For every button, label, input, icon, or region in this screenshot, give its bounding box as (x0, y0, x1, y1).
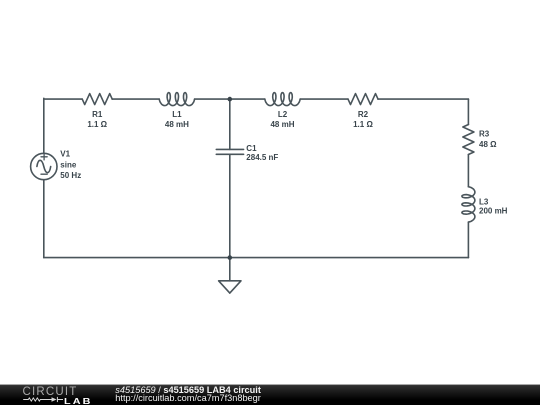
wire: R2 to top-right corner (378, 98, 468, 100)
label C1 "284.5 nF" (246, 144, 278, 162)
svg-text:R1: R1 (92, 110, 103, 119)
wire: R1 to L1 (112, 98, 159, 100)
logo wordmark LAB (64, 397, 93, 405)
node B junction dot (ground node) (228, 255, 233, 260)
svg-text:1.1 Ω: 1.1 Ω (353, 120, 373, 129)
inductor L3 (462, 187, 475, 222)
wire: bottom rail (44, 257, 469, 259)
wire: V1 bottom lead (left rail lower) (43, 180, 45, 258)
svg-text:284.5 nF: 284.5 nF (246, 153, 278, 162)
svg-text:sine: sine (60, 160, 77, 169)
svg-text:48 Ω: 48 Ω (479, 140, 497, 149)
svg-text:C1: C1 (246, 144, 257, 153)
logo wordmark CIRCUIT (23, 386, 78, 398)
wire: V1 top lead (left rail upper) (43, 98, 45, 153)
wire: right rail, corner to R3 (467, 99, 469, 124)
svg-text:48 mH: 48 mH (165, 120, 189, 129)
svg-text:L2: L2 (278, 110, 288, 119)
wire: C1 top lead (229, 99, 231, 149)
svg-text:50 Hz: 50 Hz (60, 171, 81, 180)
svg-text:V1: V1 (60, 150, 70, 159)
inductor L2 (265, 93, 300, 106)
svg-text:1.1 Ω: 1.1 Ω (87, 120, 107, 129)
svg-text:L1: L1 (172, 110, 182, 119)
wire: L3 to bottom-right corner (467, 222, 469, 258)
wire: L2 to R2 (300, 98, 348, 100)
wire: C1 bottom lead (229, 154, 231, 257)
logo schematic squiggle (resistor + diode) (21, 396, 67, 405)
resistor R2 (348, 94, 378, 105)
wire: node A to L2 (230, 98, 265, 100)
svg-text:L3: L3 (479, 198, 489, 207)
footer metadata text (115, 387, 261, 403)
voltage source V1 (31, 153, 57, 179)
label L3 "200 mH" (479, 198, 508, 216)
wire: R3 to L3 (467, 155, 469, 187)
node A junction dot (top of C1) (228, 97, 233, 102)
svg-text:48 mH: 48 mH (270, 120, 294, 129)
svg-text:R2: R2 (358, 110, 369, 119)
svg-text:R3: R3 (479, 130, 490, 139)
label V1 "V1 sine 50 Hz" (60, 150, 81, 180)
label R2 "1.1 &#937;" (353, 110, 373, 129)
wire: top rail, corner to R1 (44, 98, 82, 100)
wire: L1 to node A (195, 98, 230, 100)
resistor R3 (463, 125, 474, 155)
label L1 "48 mH" (165, 110, 189, 129)
svg-text:200 mH: 200 mH (479, 207, 508, 216)
inductor L1 (159, 93, 194, 106)
resistor R1 (82, 94, 112, 105)
label L2 "48 mH" (270, 110, 294, 129)
ground (219, 281, 241, 293)
wire: ground stub (229, 258, 231, 281)
label R1 "1.1 &#937;" (87, 110, 107, 129)
footer bar (0, 384, 540, 405)
capacitor C1 (216, 149, 243, 154)
label R3 "48 &#937;" (479, 130, 497, 149)
